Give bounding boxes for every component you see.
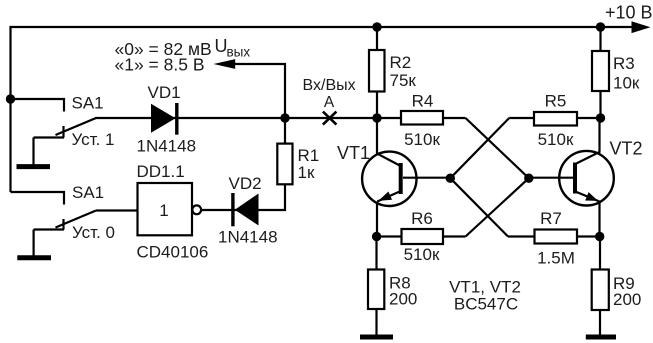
svg-text:200: 200 [389,290,417,309]
svg-text:BC547C: BC547C [454,295,518,314]
svg-text:R5: R5 [545,91,567,110]
svg-text:Вх/Вых: Вх/Вых [303,77,356,94]
svg-text:510к: 510к [538,130,574,149]
svg-text:VT1: VT1 [337,143,370,163]
svg-text:R7: R7 [540,209,562,228]
svg-text:+10 В: +10 В [605,3,653,23]
svg-text:R2: R2 [390,53,412,72]
svg-text:10к: 10к [613,74,640,93]
svg-text:вых: вых [227,45,251,60]
svg-text:CD40106: CD40106 [137,243,209,262]
svg-text:510к: 510к [404,245,440,264]
svg-text:VD2: VD2 [229,174,262,193]
svg-text:1N4148: 1N4148 [218,228,278,247]
svg-text:Уст. 1: Уст. 1 [72,130,115,149]
svg-text:510к: 510к [404,130,440,149]
svg-text:SA1: SA1 [72,183,104,202]
svg-text:1к: 1к [298,163,315,182]
svg-text:Уст. 0: Уст. 0 [72,223,115,242]
svg-text:SA1: SA1 [72,94,104,113]
svg-text:R3: R3 [613,54,635,73]
svg-text:DD1.1: DD1.1 [137,162,185,181]
svg-text:VT2: VT2 [610,139,643,159]
svg-text:«1» = 8.5 В: «1» = 8.5 В [115,54,205,74]
svg-text:R4: R4 [412,91,434,110]
svg-text:75к: 75к [390,71,417,90]
svg-text:A: A [324,94,335,111]
svg-text:200: 200 [613,290,641,309]
svg-text:1N4148: 1N4148 [137,136,197,155]
svg-text:VD1: VD1 [148,83,181,102]
svg-text:1.5M: 1.5M [537,248,575,267]
svg-text:R6: R6 [411,209,433,228]
svg-text:1: 1 [159,201,168,220]
